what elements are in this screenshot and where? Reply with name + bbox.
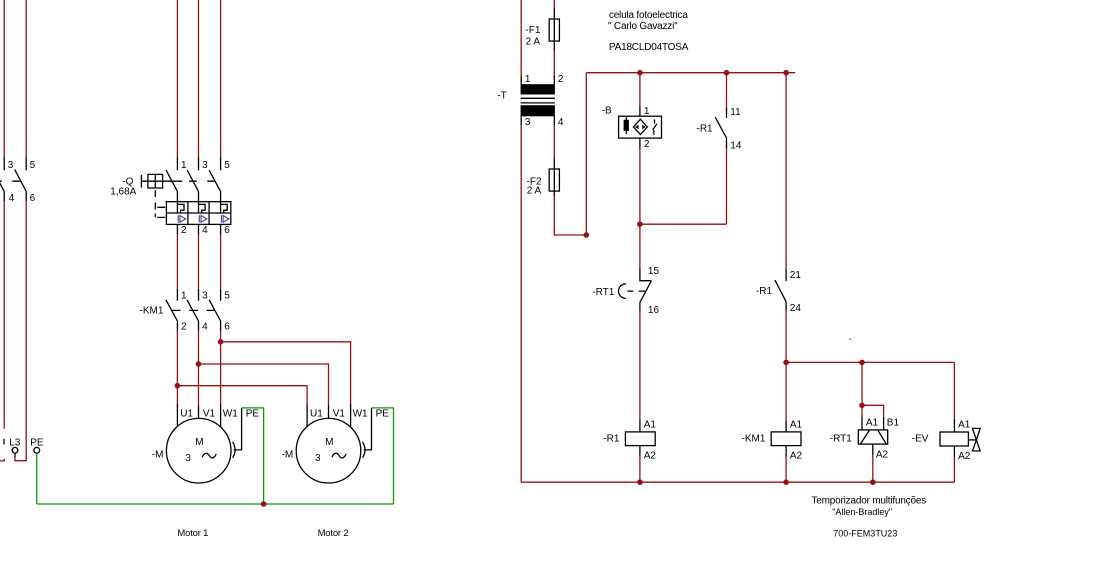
wire branch to motor2 W1 — [221, 342, 351, 404]
svg-text:2: 2 — [181, 225, 187, 236]
breaker Q pole 5-6 — [209, 156, 230, 202]
wire control left rail — [520, 0, 522, 482]
main switch mechanical link (dashed) — [0, 180, 20, 182]
svg-text:A2: A2 — [790, 451, 803, 462]
motor M2 PE label and wire — [372, 408, 394, 504]
wire bus to contact R1 21 — [785, 73, 787, 269]
svg-text:A1: A1 — [790, 420, 803, 431]
wire F2 to bus riser — [554, 196, 586, 235]
svg-text:V1: V1 — [333, 408, 346, 419]
svg-text:B1: B1 — [887, 417, 900, 428]
node KM1 branch — [783, 360, 789, 366]
node W1 branch — [218, 339, 224, 345]
svg-text:PE: PE — [376, 408, 390, 419]
svg-text:U1: U1 — [310, 408, 323, 419]
svg-text:1: 1 — [181, 160, 187, 171]
transformer T — [497, 74, 564, 128]
svg-text:A2: A2 — [958, 451, 971, 462]
node B2 junction — [637, 221, 643, 227]
node U1 branch — [175, 383, 181, 389]
svg-text:3: 3 — [202, 160, 208, 171]
svg-text:W1: W1 — [353, 408, 368, 419]
wire timer bus — [786, 361, 954, 363]
wire contact 24 to node — [785, 311, 787, 363]
svg-text:2 A: 2 A — [526, 37, 541, 48]
svg-text:W1: W1 — [223, 408, 238, 419]
svg-text:A1: A1 — [644, 420, 657, 431]
svg-text:2: 2 — [181, 322, 187, 333]
wire branch to motor2 V1 — [199, 364, 329, 405]
svg-text:3: 3 — [8, 160, 14, 171]
wire KM1 to motor1 V1 — [198, 331, 200, 405]
node V1 branch — [196, 361, 202, 367]
svg-text:V1: V1 — [203, 408, 216, 419]
svg-text:L3: L3 — [9, 438, 21, 449]
wire PE green drop — [36, 453, 38, 504]
wire transformer 4 down — [553, 126, 555, 159]
svg-text:5: 5 — [30, 160, 36, 171]
svg-text:1: 1 — [644, 106, 650, 117]
wire Q to KM1 phase 1 — [176, 235, 178, 289]
wire bus to B — [639, 73, 641, 106]
svg-text:700-FEM3TU23: 700-FEM3TU23 — [833, 529, 897, 539]
svg-text:Motor 2: Motor 2 — [318, 528, 349, 539]
svg-text:21: 21 — [790, 270, 802, 281]
wire RT1 coil to bottom bus — [872, 455, 874, 482]
node top bus R1 21 branch — [783, 70, 789, 76]
svg-text:PE: PE — [246, 408, 260, 419]
svg-text:3: 3 — [315, 453, 321, 464]
svg-text:11: 11 — [730, 107, 741, 118]
breaker Q pole 3-4 — [187, 156, 208, 202]
svg-text:14: 14 — [730, 141, 742, 152]
wire rail A bottom stub — [0, 459, 4, 461]
node PE bus — [261, 501, 267, 507]
coil KM1 — [742, 420, 803, 462]
wire PE bus green — [37, 503, 394, 505]
svg-text:-M: -M — [282, 449, 294, 460]
svg-text:-EV: -EV — [912, 434, 929, 445]
motor M1 PE label and wire — [242, 408, 264, 504]
svg-text:A2: A2 — [876, 450, 889, 461]
svg-text:2: 2 — [644, 139, 650, 150]
svg-text:2: 2 — [558, 74, 564, 85]
wire node to RT1 contact — [639, 224, 641, 268]
svg-text:M: M — [195, 437, 203, 448]
svg-text:6: 6 — [224, 322, 230, 333]
svg-text:15: 15 — [648, 266, 660, 277]
svg-text:-R1: -R1 — [603, 434, 620, 445]
motor M2 PE pigtail — [363, 408, 372, 458]
svg-text:-F1: -F1 — [525, 25, 540, 36]
svg-text:U1: U1 — [180, 408, 193, 419]
wire KM1 coil to bottom bus — [785, 457, 787, 483]
node RT1 A1-B1 split — [859, 403, 865, 409]
wire RT1 A1 drop — [861, 405, 863, 417]
terminal L3 — [9, 438, 21, 458]
svg-text:PA18CLD04TOSA: PA18CLD04TOSA — [609, 42, 689, 53]
wire KM1 to motor1 U1 — [176, 331, 178, 404]
node top bus R1 11 branch — [724, 70, 730, 76]
breaker Q magnetic I> 1 — [178, 215, 186, 223]
svg-text:1: 1 — [525, 74, 531, 85]
breaker Q magnetic I> 2 — [199, 215, 207, 223]
svg-text:24: 24 — [790, 303, 802, 314]
contactor KM1 pole 3-4 — [187, 289, 208, 333]
node bottom bus RT1 — [870, 479, 876, 485]
svg-text:A1: A1 — [958, 420, 971, 431]
svg-text:4: 4 — [202, 322, 208, 333]
breaker Q actuator — [141, 174, 214, 188]
wire rail L1 top — [176, 0, 178, 156]
wire rail A top (left edge) — [3, 0, 5, 156]
main switch pole 3-4 — [0, 156, 15, 204]
wire bottom bus — [521, 481, 954, 483]
fuse F2 — [527, 159, 560, 197]
wire contact 14 down — [726, 149, 728, 224]
coil RT1 (timer) — [830, 417, 900, 461]
svg-text:Motor 1: Motor 1 — [177, 528, 208, 539]
svg-text:6: 6 — [224, 225, 230, 236]
svg-text:4: 4 — [202, 225, 208, 236]
contact RT1 15-16 (timed NC) — [592, 266, 659, 316]
node riser bottom — [584, 232, 590, 238]
svg-text:-M: -M — [152, 449, 164, 460]
wire Q to KM1 phase 2 — [198, 235, 200, 289]
wire riser up to top bus — [585, 73, 587, 235]
svg-text:"Allen-Bradley": "Allen-Bradley" — [832, 507, 892, 517]
svg-text:2 A: 2 A — [527, 185, 542, 196]
svg-text:-RT1: -RT1 — [830, 434, 852, 445]
wire RT1 branch down — [861, 362, 863, 405]
node bottom bus KM1 — [783, 479, 789, 485]
svg-text:3: 3 — [525, 117, 531, 128]
wire F1 to transformer — [553, 51, 555, 75]
svg-text:PE: PE — [30, 438, 44, 449]
wire KM1 to motor1 W1 — [220, 331, 222, 404]
wire rail A middle — [3, 202, 5, 429]
caption timer — [812, 496, 927, 539]
svg-text:celula fotoelectrica: celula fotoelectrica — [609, 10, 688, 21]
node top bus B branch — [637, 70, 643, 76]
svg-text:A2: A2 — [644, 451, 657, 462]
svg-text:-KM1: -KM1 — [140, 306, 164, 317]
contactor KM1 pole 5-6 — [209, 289, 230, 333]
motor M1 — [152, 404, 238, 483]
svg-text:5: 5 — [224, 291, 230, 302]
svg-text:5: 5 — [224, 160, 230, 171]
svg-text:-T: -T — [497, 91, 506, 102]
coil R1 — [603, 420, 656, 462]
motor M2 — [282, 404, 368, 483]
wire EV feed — [953, 362, 955, 419]
breaker Q actuator dashed link — [155, 190, 165, 217]
motor M1 PE pigtail — [233, 408, 242, 458]
svg-text:1,68A: 1,68A — [110, 186, 136, 197]
text photocell description — [608, 10, 689, 53]
svg-text:" Carlo Gavazzi": " Carlo Gavazzi" — [608, 21, 678, 32]
breaker Q bottom terminals — [177, 224, 230, 235]
svg-text:3: 3 — [185, 453, 191, 464]
wire rail L2 top — [198, 0, 200, 156]
wire RT1 16 to R1 coil — [639, 311, 641, 420]
breaker Q thermal block — [166, 202, 230, 225]
wire fuse F1 branch top — [553, 0, 555, 8]
wire branch to motor2 U1 — [177, 386, 307, 404]
breaker Q magnetic I> 3 — [221, 215, 229, 223]
wire rail B — [15, 0, 26, 461]
breaker Q thermal element 3 — [221, 202, 228, 213]
contactor KM1 mechanical link (dashed) — [172, 309, 215, 311]
wire KM1 coil feed — [785, 362, 787, 420]
svg-text:3: 3 — [202, 291, 208, 302]
svg-text:1: 1 — [181, 291, 187, 302]
contact R1 21-24 — [756, 269, 801, 314]
svg-text:-KM1: -KM1 — [742, 434, 766, 445]
contact R1 11-14 — [697, 107, 742, 151]
wire bus to contact R1 11 — [726, 73, 728, 108]
svg-text:-R1: -R1 — [756, 286, 773, 297]
wire parallel link — [640, 223, 727, 225]
breaker Q pole 1-2 — [166, 156, 187, 202]
wire RT1 B1 link — [862, 405, 884, 417]
wire Q to KM1 phase 3 — [220, 235, 222, 289]
node bottom bus R1 — [637, 479, 643, 485]
svg-text:Temporizador multifunções: Temporizador multifunções — [812, 496, 927, 507]
coil EV (solenoid valve) — [912, 419, 980, 462]
node RT1 branch — [859, 360, 865, 366]
svg-text:A1: A1 — [866, 417, 879, 428]
photocell B — [602, 106, 662, 150]
svg-text:6: 6 — [30, 193, 36, 204]
svg-text:-B: -B — [602, 106, 612, 117]
breaker Q thermal element 1 — [177, 202, 184, 213]
main switch pole 5-6 — [15, 156, 36, 204]
fuse F1 — [525, 8, 559, 51]
wire R1 coil to bottom bus — [639, 457, 641, 483]
svg-text:-R1: -R1 — [697, 123, 714, 134]
svg-text:16: 16 — [648, 305, 660, 316]
wire B to node — [639, 149, 641, 224]
label fragment at edge — [3, 439, 5, 445]
breaker Q thermal element 2 — [199, 202, 206, 213]
svg-text:-RT1: -RT1 — [592, 287, 614, 298]
wire rail L3 top — [220, 0, 222, 156]
terminal PE — [30, 438, 44, 454]
wire EV coil to bottom bus — [953, 457, 955, 482]
contactor KM1 pole 1-2 — [166, 289, 187, 333]
svg-text:4: 4 — [9, 193, 15, 204]
wire control top bus — [586, 72, 795, 74]
svg-text:4: 4 — [558, 117, 564, 128]
svg-text:M: M — [325, 437, 333, 448]
stray mark — [850, 339, 852, 340]
